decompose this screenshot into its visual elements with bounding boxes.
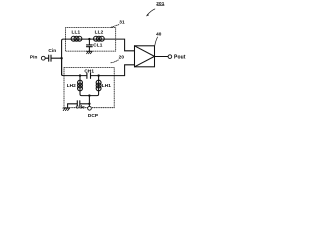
- label Cdc: [76, 105, 85, 110]
- svg-text:LL1: LL1: [72, 30, 81, 35]
- ground (left of Cdc): [63, 108, 70, 111]
- label DCP: [88, 113, 98, 118]
- node E junction dot (bottom center): [88, 94, 90, 96]
- label 20: [119, 54, 125, 59]
- node B junction dot (between LL1 and LL2): [88, 38, 90, 40]
- svg-text:LH2: LH2: [67, 83, 76, 88]
- capacitor CL1: [87, 45, 93, 47]
- inductor LL2: [94, 36, 105, 41]
- svg-text:LL2: LL2: [95, 30, 104, 35]
- terminal Pin: [41, 56, 45, 60]
- svg-text:LH1: LH1: [102, 83, 111, 88]
- svg-text:CH1: CH1: [84, 69, 94, 74]
- label CL1: [93, 42, 102, 47]
- wire amp to Pout: [155, 56, 169, 58]
- svg-text:20: 20: [119, 54, 125, 59]
- label 31: [119, 20, 125, 25]
- ground (below CL1): [86, 51, 92, 53]
- inductor LH2: [78, 80, 83, 91]
- wire CL1 to ground: [88, 47, 90, 52]
- capacitor Cin: [49, 55, 51, 61]
- node F junction dot (Cdc tap): [88, 103, 90, 105]
- wire node E down to DCP: [88, 96, 90, 107]
- node A junction dot: [60, 57, 62, 59]
- underline of 201: [157, 5, 164, 7]
- wire Pin to Cin: [45, 57, 48, 59]
- capacitor Cdc: [77, 101, 80, 106]
- label LH1: [102, 83, 111, 88]
- label CH1: [84, 69, 94, 74]
- inductor LH1: [96, 80, 101, 91]
- svg-text:201: 201: [156, 1, 164, 6]
- svg-text:Pin: Pin: [30, 55, 38, 60]
- label 201: [156, 1, 164, 6]
- wire Cdc to ground: [68, 104, 77, 108]
- leader 40: [155, 37, 158, 46]
- terminal DCP: [88, 106, 92, 110]
- svg-text:Pout: Pout: [174, 55, 186, 61]
- amplifier 40 (box with triangle): [135, 46, 155, 67]
- wire LH1 branch: [89, 76, 98, 96]
- capacitor CH1: [87, 73, 91, 78]
- svg-text:CL1: CL1: [93, 42, 102, 47]
- node D junction dot (right of CH1): [97, 74, 99, 76]
- label Cin: [48, 48, 56, 53]
- dashed box 31 (output matching network): [65, 28, 115, 51]
- wire LH2 branch: [80, 76, 89, 96]
- node C junction dot (left of CH1): [79, 74, 81, 76]
- label Pin: [30, 55, 38, 60]
- label Pout: [174, 55, 186, 61]
- svg-text:Cdc: Cdc: [76, 105, 85, 110]
- svg-text:DCP: DCP: [88, 113, 98, 118]
- wire node F to Cdc: [80, 103, 89, 105]
- svg-text:31: 31: [119, 20, 125, 25]
- wire node B down to CL1: [88, 39, 90, 45]
- leader arrow for 201: [147, 9, 155, 15]
- terminal Pout: [168, 55, 172, 59]
- svg-text:40: 40: [156, 32, 162, 37]
- svg-text:Cin: Cin: [48, 48, 56, 53]
- label LL2: [95, 30, 104, 35]
- label LH2: [67, 83, 76, 88]
- label LL1: [72, 30, 81, 35]
- wire node A up into box 31 and to amp (top path): [62, 39, 135, 75]
- dashed box 20 (bias / high-pass network): [64, 68, 114, 108]
- leader 20 (dotted): [111, 60, 119, 63]
- wire Cin to node A: [51, 57, 61, 59]
- label 40: [156, 32, 162, 37]
- leader 31 (dotted): [111, 25, 119, 28]
- inductor LL1: [71, 36, 82, 41]
- wire node A down and into box 20 (bottom path, to amp): [62, 58, 135, 75]
